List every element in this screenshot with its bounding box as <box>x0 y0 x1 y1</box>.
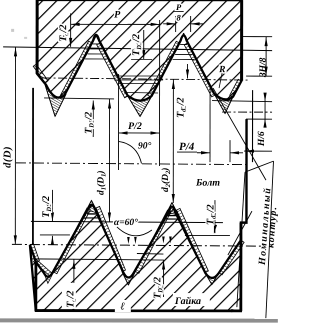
dimension line Td2/2 lower <box>214 200 216 233</box>
dimension line TD1/2 lower <box>51 190 53 221</box>
tolerance band upper flank root2-crest2 <box>148 41 180 97</box>
tolerance sliver at lower root3 <box>205 273 219 285</box>
svg-text:d1(D1): d1(D1) <box>95 171 107 195</box>
dimension line TD2/2 upper <box>143 30 145 59</box>
dimension line Td/2 lower <box>73 259 75 310</box>
lower crest1 flat tolerance lines <box>87 213 96 215</box>
extension line at x=118.5 <box>117 74 119 170</box>
tolerance tip triangle lower crest2 <box>163 203 180 220</box>
extension line right column <box>251 90 253 162</box>
label Td/2 lower white halo <box>62 283 76 309</box>
tolerance sliver at lower root1 <box>43 272 53 284</box>
nut lower section (hatched mass) <box>30 205 241 311</box>
tolerance band upper flank root1-crest1 <box>61 41 92 97</box>
svg-text:3H/8: 3H/8 <box>259 57 269 78</box>
flank construction line extended to lower right <box>213 88 266 180</box>
dimension arrows length l <box>37 309 46 312</box>
tolerance line at upper root2 lower <box>124 91 158 94</box>
svg-text:d(D): d(D) <box>2 146 13 168</box>
extension line P/4 right <box>229 140 231 162</box>
nut lower left wall thick <box>34 262 37 311</box>
nominal contour callout border right <box>266 161 274 318</box>
nut upper right wall thick <box>240 0 243 80</box>
major diameter line d(D) <box>3 47 272 51</box>
svg-text:P/4: P/4 <box>179 141 195 153</box>
label l white halo <box>115 300 131 312</box>
dimension line P <box>71 23 160 25</box>
sharp profile lines upper root3 <box>214 94 225 114</box>
crest2 flat tolerance lines <box>180 44 187 46</box>
nut lower section bottom edge <box>36 309 241 312</box>
extension line P/4 left <box>209 84 211 162</box>
tolerance band lower flank crest1-root2 <box>96 206 126 271</box>
dimension line H/6 <box>264 94 266 127</box>
axis dash-dot right mid <box>222 111 272 113</box>
svg-text:Td/2: Td/2 <box>65 291 77 308</box>
tolerance band on upper-left notch <box>33 64 48 83</box>
lower crest2 flat tolerance lines <box>167 215 176 217</box>
tolerance band lower flank root3-wall <box>219 240 244 275</box>
minor diameter line D1 right <box>212 101 272 102</box>
nut upper section (hatched mass) <box>37 0 242 101</box>
svg-text:Болт: Болт <box>195 178 220 189</box>
scan shadow bottom edge <box>0 318 278 322</box>
dimension line d1(D1) <box>108 99 110 221</box>
dimension arrows P/8 <box>163 23 175 25</box>
flank extension line lower root3 to step <box>228 211 252 255</box>
dimension line TD1/2 upper <box>92 100 94 136</box>
pitch line upper profile (dash-dot) <box>42 78 250 80</box>
nominal contour callout border left <box>237 172 245 307</box>
nominal contour callout top cap <box>245 161 274 172</box>
svg-text:d2(D2): d2(D2) <box>160 168 172 192</box>
sharp profile lines lower crest1 <box>83 200 92 217</box>
tolerance tip triangle lower crest1 <box>83 200 100 217</box>
dimension line d2(D2) <box>172 80 174 203</box>
arrow on line y151 <box>245 150 254 153</box>
pitch tolerance lines at upper root2 <box>114 75 163 77</box>
arc alpha 60 <box>117 227 152 236</box>
line H/6 bottom ref <box>246 118 272 120</box>
tolerance band lower flank root1L <box>33 259 51 276</box>
tolerance sliver at upper root3 <box>214 94 233 114</box>
pitch line lower profile (dash-dot) <box>12 244 262 246</box>
sharp profile lines lower root3 <box>205 273 212 285</box>
dimension line Td/2 upper <box>70 13 72 46</box>
svg-text:90°: 90° <box>138 140 152 151</box>
tolerance band on lower-left notch <box>30 244 39 262</box>
dimension line d(D) <box>14 47 16 244</box>
sharp profile lines upper root2 <box>127 95 140 117</box>
svg-text:Td/2: Td/2 <box>58 24 70 41</box>
line dmin lower <box>31 259 164 260</box>
tolerance arrows at lower root2 <box>127 237 130 244</box>
minor diameter line d1 (bottom) <box>31 221 223 222</box>
tolerance band lower flank root2-crest2 <box>135 210 170 273</box>
nominal contour step line <box>241 119 247 240</box>
svg-text:P/2: P/2 <box>128 121 142 132</box>
nut lower right wall thick <box>239 223 242 311</box>
line TD1/2 lower ref left <box>40 234 70 236</box>
short arrow line Td2/2 <box>186 64 188 78</box>
tolerance band upper flank root3-wall <box>230 79 242 97</box>
label Gaika white halo <box>173 293 210 306</box>
sharp profile lines lower crest2 <box>163 203 172 220</box>
svg-text:Гайка: Гайка <box>174 296 201 307</box>
extension line at x=159.5 <box>158 20 160 166</box>
minor diameter line D1 left <box>44 98 114 99</box>
tolerance band upper flank crest2-root3 <box>184 43 215 97</box>
line TD1/2 lower ref right <box>185 235 230 237</box>
dimension line 3H/8 <box>265 37 267 76</box>
label nominal contour line1 <box>257 186 280 266</box>
tolerance sliver at upper root2 <box>127 95 152 117</box>
tolerance band upper flank crest1-root2 <box>97 43 128 98</box>
svg-text:контур.: контур. <box>265 205 278 248</box>
line at right flank arrow <box>244 150 272 152</box>
dimension arrows P/4 <box>197 152 210 154</box>
axis line mid (dash-dot) <box>16 163 247 165</box>
nut upper left wall thick <box>36 0 39 74</box>
svg-text:ℓ: ℓ <box>120 301 125 312</box>
scan specks top-left <box>11 29 14 32</box>
tolerance sliver at upper root1 <box>45 85 66 117</box>
short line at TD2/2 arrow <box>131 58 152 60</box>
svg-text:α=60°: α=60° <box>114 217 138 228</box>
tolerance band lower flank crest2-root3 <box>176 208 208 272</box>
tolerance band lower flank root1-crest1 <box>53 208 90 274</box>
sharp profile lines lower root2 <box>122 271 129 285</box>
dimension line TD2/2 lower <box>163 261 165 297</box>
svg-text:P: P <box>176 2 182 12</box>
svg-text:P: P <box>114 9 121 20</box>
svg-text:H/6: H/6 <box>257 131 267 147</box>
tolerance arrows at d2 line <box>162 237 165 244</box>
dimension line P/2 <box>119 132 160 134</box>
line 3H/8 top ref <box>242 36 272 38</box>
arc 90 degrees <box>118 141 141 163</box>
sharp profile lines upper root1 <box>45 85 55 117</box>
line D2 level lower <box>137 252 164 255</box>
crest1 flat tolerance lines <box>93 43 100 45</box>
tolerance sliver at lower root2 <box>122 271 136 285</box>
nut lower section profile outline <box>30 205 241 311</box>
extension ticks P/8 <box>175 16 177 32</box>
nominal contour left edge line <box>32 88 34 245</box>
bolt sharp crest lines at crest1 <box>89 36 97 51</box>
bolt sharp crest lines at crest2 <box>176 33 184 51</box>
nut upper section profile outline <box>37 0 242 101</box>
line 3H/8 bottom ref <box>246 75 272 77</box>
